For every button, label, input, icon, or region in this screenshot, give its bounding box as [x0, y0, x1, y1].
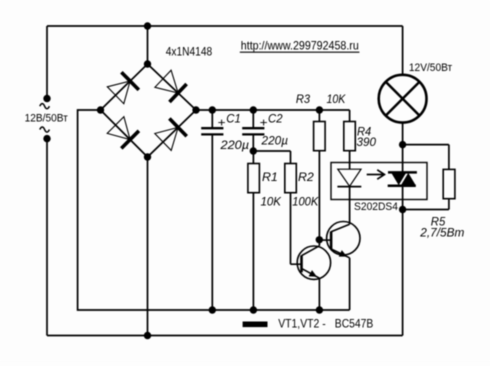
svg-text:http://www.299792458.ru: http://www.299792458.ru	[241, 38, 359, 52]
svg-text:VT1,VT2 -: VT1,VT2 -	[278, 318, 326, 330]
svg-text:BC547B: BC547B	[335, 318, 374, 330]
svg-text:+: +	[260, 115, 268, 129]
svg-text:4x1N4148: 4x1N4148	[166, 47, 213, 59]
svg-text:12В/50Вт: 12В/50Вт	[25, 113, 68, 125]
svg-text:+: +	[218, 115, 226, 129]
svg-text:12V/50Вт: 12V/50Вт	[409, 62, 452, 74]
svg-text:220µ: 220µ	[219, 138, 249, 152]
svg-text:R1: R1	[262, 170, 278, 184]
svg-text:2,7/5Вт: 2,7/5Вт	[419, 226, 464, 240]
svg-text:S202DS4: S202DS4	[354, 201, 398, 213]
svg-text:10K: 10K	[261, 195, 282, 209]
svg-text:100K: 100K	[292, 195, 319, 209]
svg-text:R2: R2	[298, 170, 314, 184]
svg-text:390: 390	[357, 135, 377, 149]
svg-text:R3: R3	[296, 92, 310, 106]
svg-text:C1: C1	[226, 112, 241, 126]
svg-text:10K: 10K	[327, 92, 347, 106]
svg-text:220µ: 220µ	[261, 134, 289, 148]
svg-text:C2: C2	[268, 112, 283, 126]
